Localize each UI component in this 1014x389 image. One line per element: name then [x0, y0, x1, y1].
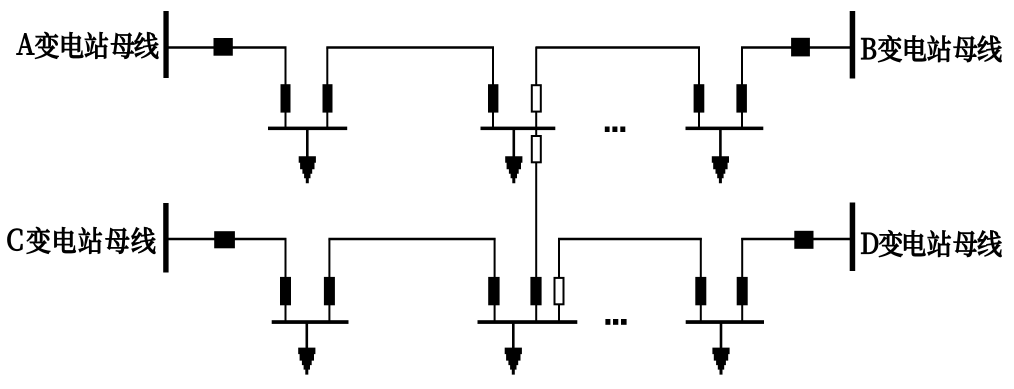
breaker: station3 outgoing (closed): [736, 84, 747, 112]
switch: station5 outgoing (open, hollow): [555, 278, 564, 304]
wire: station6 to busbar D: [741, 238, 850, 240]
wire: station4 riser left (drop): [285, 238, 287, 322]
wire: station6 riser left (drop): [700, 238, 702, 322]
breaker: station4 outgoing (closed): [324, 277, 335, 305]
breaker: station3 incoming (closed): [694, 84, 705, 112]
wire: busbar C to station4 riser (bottom feeder): [168, 238, 286, 240]
wire: station5 load stem: [512, 322, 515, 349]
load arrow: station2 feeder: [505, 156, 522, 183]
label D substation busbar text "D变电站母线": [861, 230, 1001, 257]
wire: station5 riser left (drop): [494, 238, 496, 322]
wire: station1 to station2 (top tie line): [326, 46, 494, 48]
node: station5 bus bar (bottom row): [478, 320, 578, 324]
breaker: station5 incoming (closed): [488, 277, 499, 305]
busbar A: [163, 11, 168, 78]
wire: station3 riser left (drop): [698, 47, 700, 129]
breaker: substation A outlet breaker (closed, black square): [214, 38, 233, 56]
wire: station3 riser right (rise): [741, 48, 743, 129]
node: station1 bus bar (top row): [268, 127, 347, 131]
wire: station3 load stem: [719, 129, 722, 158]
wire: busbar A to station1 riser (top feeder): [168, 46, 287, 48]
breaker: station6 outgoing (closed): [737, 277, 748, 305]
label A substation busbar text "A变电站母线": [17, 32, 159, 59]
breaker: substation C outlet breaker (closed, black square): [214, 231, 235, 248]
wire: station2 to station3 (top tie line): [536, 46, 700, 48]
node: station4 bus bar (bottom row): [272, 320, 349, 324]
wire: station4 riser right (rise): [328, 239, 330, 322]
breaker: station5 tie from upper network (closed): [530, 277, 541, 305]
wire: station5 to station6 (bottom tie line): [558, 238, 702, 240]
wire: station1 riser right (rise): [326, 48, 328, 129]
wire: station5 riser right (rise): [558, 238, 560, 322]
load arrow: station3 feeder: [712, 156, 729, 183]
breaker: station1 outgoing (closed): [323, 84, 333, 112]
load arrow: station4 feeder: [298, 348, 315, 375]
wire: station2 load stem: [512, 129, 515, 158]
wire: station1 load stem: [306, 129, 309, 158]
breaker: station1 incoming (closed): [281, 84, 291, 112]
label B substation busbar text "B变电站母线": [861, 35, 1001, 62]
busbar D: [850, 203, 856, 272]
wire: station6 load stem: [720, 322, 723, 349]
node: station3 bus bar (top row): [686, 127, 764, 131]
breaker: substation D outlet breaker (closed, black square): [794, 231, 813, 249]
switch: station2 upper tie (open, hollow): [532, 85, 541, 111]
dots: more stations (top row ellipsis): [605, 127, 610, 133]
wire: station2 riser left (drop): [492, 47, 494, 129]
dots: more stations (bottom row ellipsis): [605, 319, 610, 325]
busbar B: [850, 11, 856, 79]
node: station6 bus bar (bottom row): [686, 320, 764, 324]
load arrow: station1 feeder: [299, 156, 316, 183]
wire: station6 riser right (rise): [741, 238, 743, 322]
load arrow: station5 feeder: [505, 348, 522, 375]
breaker: station2 incoming (closed): [488, 84, 498, 112]
wire: station2 tie riser (through bus to lower network): [535, 47, 537, 323]
load arrow: station6 feeder: [712, 348, 729, 375]
breaker: station4 incoming (closed): [280, 277, 291, 305]
wire: station1 riser left (drop): [285, 47, 287, 129]
wire: station3 to busbar B: [741, 46, 850, 48]
label C substation busbar text "C变电站母线": [8, 227, 156, 254]
breaker: station6 incoming (closed): [695, 277, 706, 305]
node: station2 bus bar (top row): [481, 127, 556, 131]
wire: station4 load stem: [305, 322, 308, 349]
switch: station2 lower tie (open, hollow): [532, 136, 541, 162]
breaker: substation B outlet breaker (closed, black square): [791, 38, 810, 57]
busbar C: [163, 203, 168, 273]
wire: station4 to station5 (bottom tie line): [328, 238, 495, 240]
